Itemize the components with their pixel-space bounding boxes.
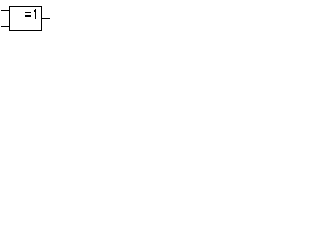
wire output Y (42, 18, 50, 19)
wire input B (1, 26, 9, 27)
label "=1" (IEC XOR function qualifier): glyph = (25, 12, 31, 17)
label "=1": glyph 1 (34, 9, 36, 19)
XOR gate U1 (IEC rectangular outline) (9, 6, 42, 31)
wire input A (1, 10, 9, 11)
